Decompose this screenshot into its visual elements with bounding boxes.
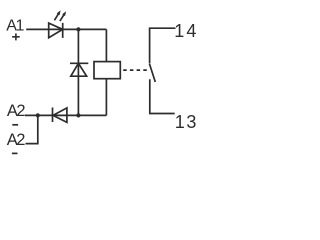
- minus polarity mark (second): [12, 152, 18, 154]
- wire coil branch down: [105, 29, 107, 61]
- terminal 14 lead: [150, 28, 176, 63]
- contact blade (NO contact): [149, 64, 155, 82]
- mechanical link (dashed) coil to contact: [123, 69, 149, 71]
- terminal 13 lead: [150, 79, 175, 113]
- wire LED to coil branch: [63, 28, 107, 30]
- wire coil to bottom rail: [105, 79, 107, 116]
- freewheel diode: [70, 63, 88, 76]
- blocking diode: [53, 108, 67, 123]
- junction node bottom: [76, 113, 80, 117]
- svg-text:A2: A2: [7, 131, 26, 149]
- svg-text:14: 14: [174, 21, 198, 41]
- minus polarity mark (first): [12, 124, 18, 126]
- relay coil K1: [94, 62, 120, 79]
- svg-text:A1: A1: [6, 18, 24, 35]
- svg-text:A2: A2: [7, 102, 26, 120]
- junction node top: [76, 27, 80, 31]
- wire A1 to LED: [26, 28, 63, 30]
- plus polarity mark: [12, 33, 20, 40]
- wire second A2 up to junction: [26, 115, 38, 143]
- svg-text:13: 13: [175, 112, 198, 132]
- wire blocking diode to coil branch: [67, 114, 107, 116]
- wire A2 to blocking diode: [25, 114, 67, 116]
- junction node A2: [36, 113, 40, 117]
- wire top junction down to freewheel diode: [77, 29, 79, 115]
- LED D1: [49, 10, 66, 38]
